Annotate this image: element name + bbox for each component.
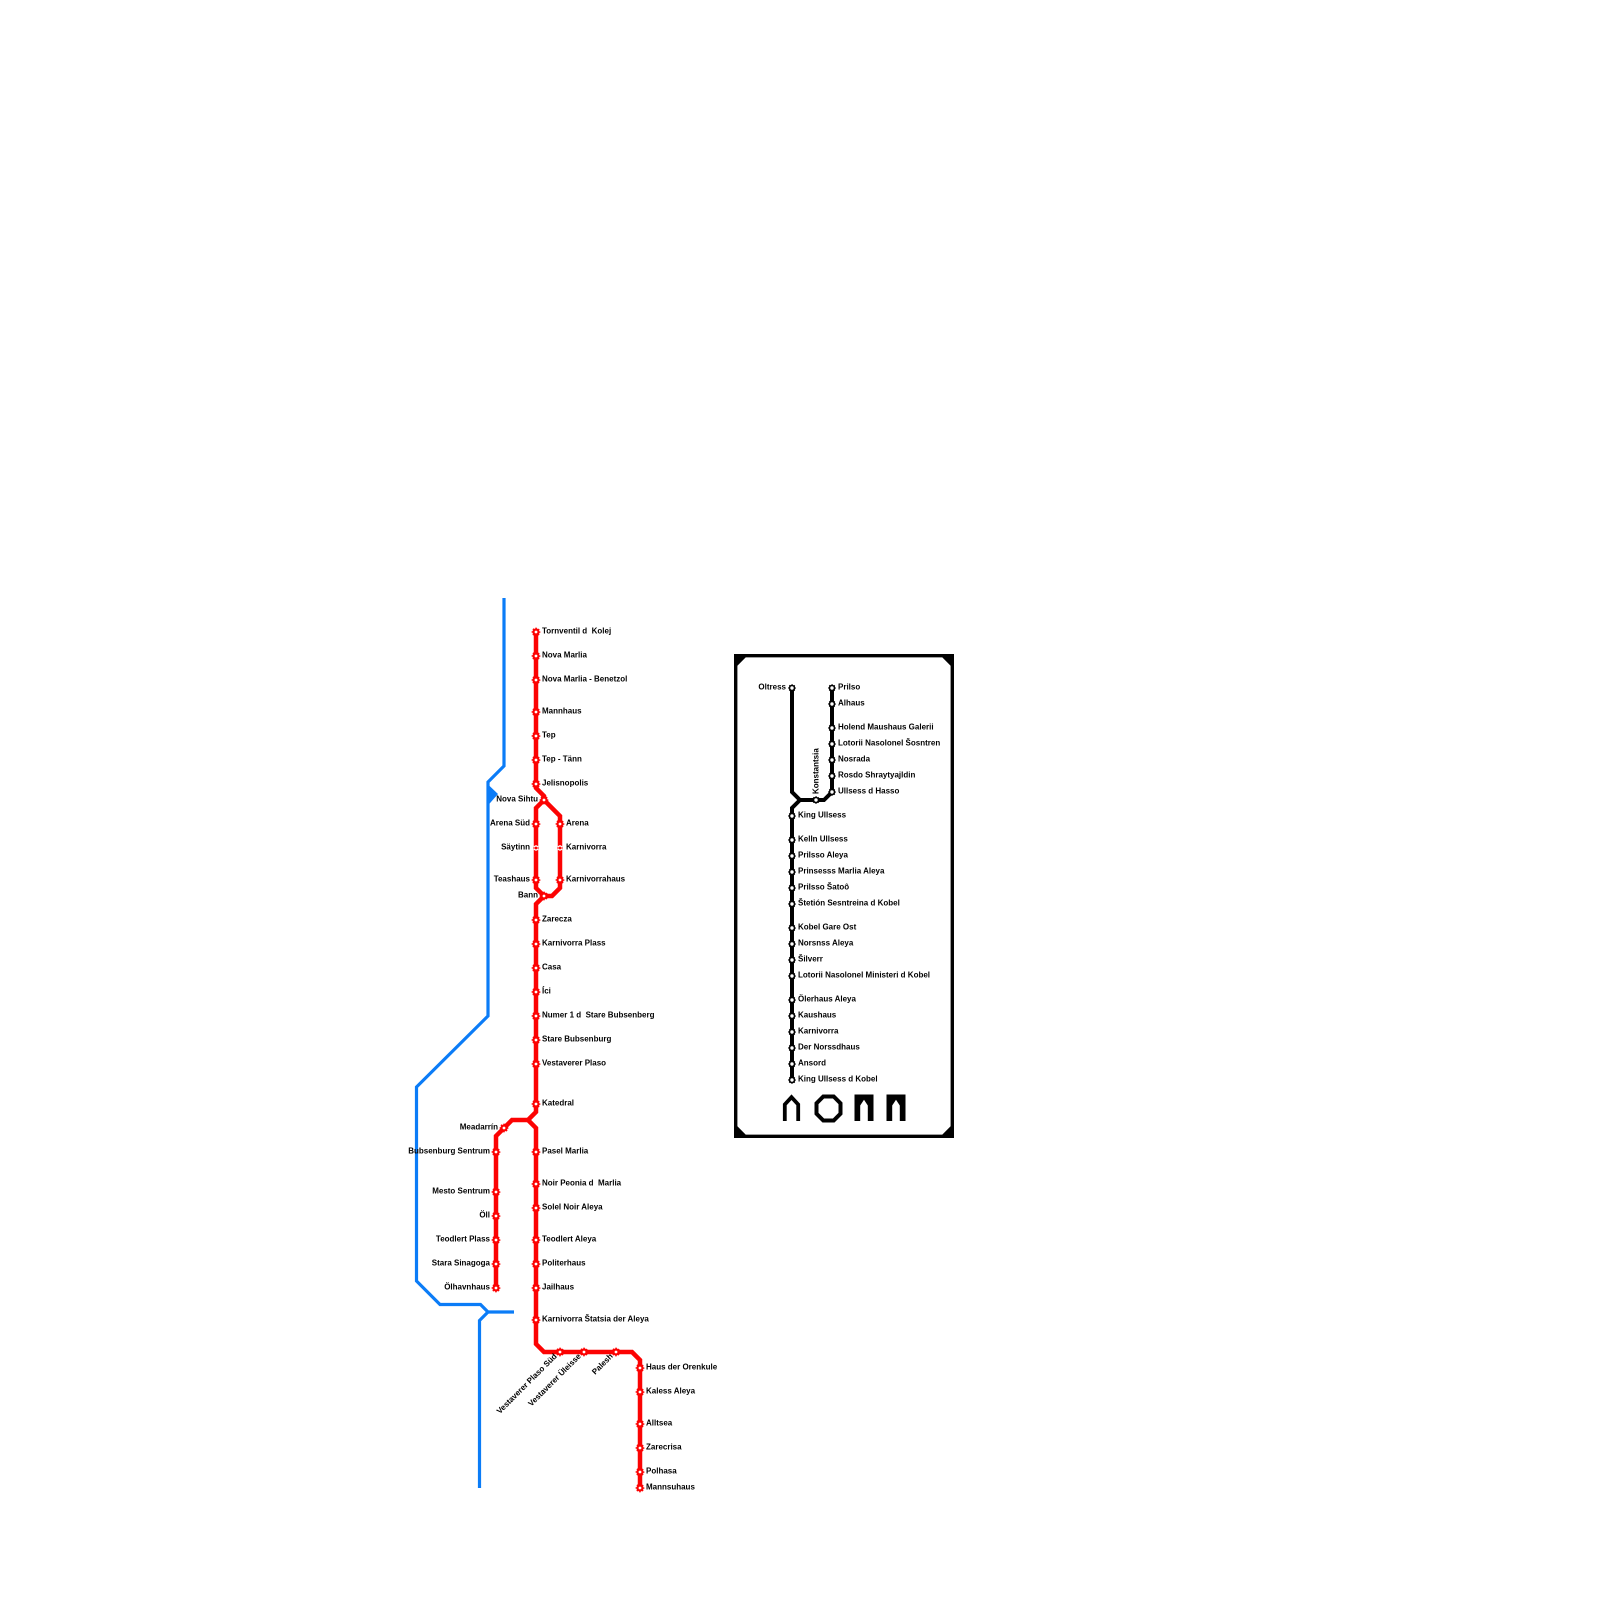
inset station Šilverr (789, 957, 796, 964)
inset station King Ullsess (789, 813, 796, 820)
minor station Karnivorra (557, 845, 563, 850)
svg-text:Tep - Tänn: Tep - Tänn (542, 755, 582, 764)
station Katedral (532, 1100, 540, 1108)
station Stare Bubsenburg (532, 1036, 540, 1044)
station Mannhaus (532, 708, 540, 716)
station Teashaus (532, 876, 540, 884)
inset frame (734, 654, 954, 1138)
svg-text:Katedral: Katedral (542, 1099, 574, 1108)
svg-text:Der Norssdhaus: Der Norssdhaus (798, 1043, 860, 1052)
logo glyph arch (785, 1097, 798, 1121)
svg-text:Arena Süd: Arena Süd (490, 819, 530, 828)
inset station Oltress (789, 685, 796, 692)
svg-text:Štetión Sesntreina d Kobel: Štetión Sesntreina d Kobel (798, 899, 900, 908)
river main course (417, 598, 515, 1312)
svg-text:Lotorii Nasolonel Ministeri d: Lotorii Nasolonel Ministeri d Kobel (798, 971, 930, 980)
logo glyph octagon (817, 1097, 841, 1121)
inset station King Ullsess d Kobel (789, 1077, 796, 1084)
svg-text:Tep: Tep (542, 731, 556, 740)
station Meadarrín (500, 1124, 508, 1132)
inset station Der Norssdhaus (789, 1045, 796, 1052)
svg-text:Karnivorra Plass: Karnivorra Plass (542, 939, 606, 948)
svg-text:Prilsso Šatoô: Prilsso Šatoô (798, 883, 849, 892)
svg-text:Jailhaus: Jailhaus (542, 1283, 575, 1292)
svg-text:Ölerhaus Aleya: Ölerhaus Aleya (798, 995, 857, 1004)
svg-text:Kelln Ullsess: Kelln Ullsess (798, 835, 848, 844)
station Tep (532, 732, 540, 740)
station Jailhaus (532, 1284, 540, 1292)
inset station Nosrada (829, 757, 836, 764)
inset station Kobel Gare Ost (789, 925, 796, 932)
inset station Alhaus (829, 701, 836, 708)
svg-text:Solel Noir Aleya: Solel Noir Aleya (542, 1203, 603, 1212)
inset station Kaushaus (789, 1013, 796, 1020)
svg-text:Nosrada: Nosrada (838, 755, 871, 764)
station Vestaverer Üleisse (580, 1348, 588, 1356)
svg-text:Prilsso Aleya: Prilsso Aleya (798, 851, 849, 860)
svg-text:Íci: Íci (542, 987, 551, 996)
svg-text:Mannsuhaus: Mannsuhaus (646, 1483, 695, 1492)
svg-text:Rosdo Shraytyajldin: Rosdo Shraytyajldin (838, 771, 915, 780)
station Nova Marlia (532, 652, 540, 660)
station Nova Sihtu (540, 796, 548, 804)
inset station Rosdo Shraytyajldin (829, 773, 836, 780)
station Politerhaus (532, 1260, 540, 1268)
logo glyph gate 2 (887, 1095, 906, 1122)
inset station Prilsso Šatoô (789, 885, 796, 892)
station Karnivorra Štatsia der Aleya (532, 1316, 540, 1324)
svg-text:Noir Peonia d Marlia: Noir Peonia d Marlia (542, 1179, 622, 1188)
svg-text:Lotorii Nasolonel Šosntren: Lotorii Nasolonel Šosntren (838, 739, 940, 748)
svg-text:Meadarrín: Meadarrín (460, 1123, 498, 1132)
svg-text:Polhasa: Polhasa (646, 1467, 677, 1476)
station Teodlert Plass (492, 1236, 500, 1244)
inset station Norsnss Aleya (789, 941, 796, 948)
station Vestaverer Plaso (532, 1060, 540, 1068)
svg-text:Säytinn: Säytinn (501, 843, 530, 852)
station Mannsuhaus (636, 1484, 644, 1492)
station Vestaverer Plaso Süd (556, 1348, 564, 1356)
minor station Säytinn (533, 845, 539, 850)
inset station Ullsess d Hasso (829, 789, 836, 796)
inset station Lotorii Nasolonel Ministeri d Kobel (789, 973, 796, 980)
red east branch south (528, 1120, 640, 1488)
svg-text:Karnivorra Štatsia der Aleya: Karnivorra Štatsia der Aleya (542, 1315, 649, 1324)
svg-text:Prilso: Prilso (838, 683, 860, 692)
station Jelisnopolis (532, 780, 540, 788)
svg-text:Kaushaus: Kaushaus (798, 1011, 837, 1020)
svg-text:Norsnss Aleya: Norsnss Aleya (798, 939, 854, 948)
svg-text:Nova Sihtu: Nova Sihtu (496, 795, 538, 804)
svg-text:King Ullsess: King Ullsess (798, 811, 847, 820)
svg-text:Šilverr: Šilverr (798, 955, 823, 964)
svg-text:Haus der Orenkule: Haus der Orenkule (646, 1363, 718, 1372)
svg-text:Karnivorra: Karnivorra (798, 1027, 839, 1036)
svg-text:Nova Marlia - Benetzol: Nova Marlia - Benetzol (542, 675, 627, 684)
svg-text:Bann: Bann (518, 891, 538, 900)
station Haus der Orenkule (636, 1364, 644, 1372)
svg-text:Ölhavnhaus: Ölhavnhaus (444, 1283, 490, 1292)
station Mesto Sentrum (492, 1188, 500, 1196)
svg-text:Zarecrisa: Zarecrisa (646, 1443, 682, 1452)
inset junction Konstantsia (813, 797, 820, 804)
station Pasel Marlia (532, 1148, 540, 1156)
svg-text:Alhaus: Alhaus (838, 699, 865, 708)
svg-text:Ullsess d Hasso: Ullsess d Hasso (838, 787, 899, 796)
inset station Prilso (829, 685, 836, 692)
svg-text:Jelisnopolis: Jelisnopolis (542, 779, 589, 788)
svg-text:Nova Marlia: Nova Marlia (542, 651, 587, 660)
station Nova Marlia - Benetzol (532, 676, 540, 684)
svg-text:Casa: Casa (542, 963, 562, 972)
svg-text:Teodlert Plass: Teodlert Plass (436, 1235, 491, 1244)
svg-text:Karnivorra: Karnivorra (566, 843, 607, 852)
station Tep - Tänn (532, 756, 540, 764)
station Tornventil d Kolej (532, 628, 540, 636)
station Kaless Aleya (636, 1388, 644, 1396)
inset station Karnivorra (789, 1029, 796, 1036)
logo glyph gate 1 (855, 1095, 874, 1122)
inset station Prilsso Aleya (789, 853, 796, 860)
station Arena Süd (532, 820, 540, 828)
svg-text:Vestaverer Plaso: Vestaverer Plaso (542, 1059, 606, 1068)
svg-text:Alltsea: Alltsea (646, 1419, 673, 1428)
station Bubsenburg Sentrum (492, 1148, 500, 1156)
station Noir Peonia d Marlia (532, 1180, 540, 1188)
svg-text:Bubsenburg Sentrum: Bubsenburg Sentrum (408, 1147, 490, 1156)
inset station Ansord (789, 1061, 796, 1068)
inset station Holend Maushaus Galerii (829, 725, 836, 732)
svg-text:King Ullsess d Kobel: King Ullsess d Kobel (798, 1075, 878, 1084)
svg-text:Öll: Öll (479, 1211, 490, 1220)
svg-text:Konstantsia: Konstantsia (812, 748, 821, 794)
river widening (487, 784, 498, 807)
station Íci (532, 988, 540, 996)
station Stara Sinagoga (492, 1260, 500, 1268)
station Arena (556, 820, 564, 828)
river south branch (480, 1312, 489, 1488)
svg-text:Teodlert Aleya: Teodlert Aleya (542, 1235, 597, 1244)
station Palesh (612, 1348, 620, 1356)
station Numer 1 d Stare Bubsenberg (532, 1012, 540, 1020)
svg-text:Pasel Marlia: Pasel Marlia (542, 1147, 589, 1156)
svg-text:Mannhaus: Mannhaus (542, 707, 582, 716)
station Karnivorra Plass (532, 940, 540, 948)
inset station Štetión Sesntreina d Kobel (789, 901, 796, 908)
svg-text:Ansord: Ansord (798, 1059, 826, 1068)
svg-text:Mesto Sentrum: Mesto Sentrum (432, 1187, 490, 1196)
svg-text:Politerhaus: Politerhaus (542, 1259, 586, 1268)
svg-text:Kobel Gare Ost: Kobel Gare Ost (798, 923, 857, 932)
svg-text:Oltress: Oltress (758, 683, 786, 692)
inset station Kelln Ullsess (789, 837, 796, 844)
red loop east leg (544, 800, 560, 896)
svg-text:Holend Maushaus Galerii: Holend Maushaus Galerii (838, 723, 934, 732)
station Polhasa (636, 1468, 644, 1476)
station Solel Noir Aleya (532, 1204, 540, 1212)
svg-text:Numer 1 d Stare Bubsenberg: Numer 1 d Stare Bubsenberg (542, 1011, 655, 1020)
svg-text:Stara Sinagoga: Stara Sinagoga (432, 1259, 491, 1268)
station Zarecrisa (636, 1444, 644, 1452)
svg-text:Zarecza: Zarecza (542, 915, 572, 924)
inset merged line (792, 800, 800, 1080)
inset station Ölerhaus Aleya (789, 997, 796, 1004)
station Casa (532, 964, 540, 972)
red trunk mid (496, 896, 544, 1288)
red loop west leg (536, 800, 544, 896)
svg-text:Arena: Arena (566, 819, 589, 828)
svg-text:Stare Bubsenburg: Stare Bubsenburg (542, 1035, 611, 1044)
inset station Lotorii Nasolonel Šosntren (829, 741, 836, 748)
inset station Prinsesss Marlia Aleya (789, 869, 796, 876)
station Bann (540, 892, 548, 900)
station Öll (492, 1212, 500, 1220)
svg-text:Prinsesss Marlia Aleya: Prinsesss Marlia Aleya (798, 867, 885, 876)
station Zarecza (532, 916, 540, 924)
inset line: west + north fork (792, 688, 832, 800)
station Karnivorrahaus (556, 876, 564, 884)
svg-text:Kaless Aleya: Kaless Aleya (646, 1387, 696, 1396)
station Ölhavnhaus (492, 1284, 500, 1292)
station Teodlert Aleya (532, 1236, 540, 1244)
station Alltsea (636, 1420, 644, 1428)
svg-text:Karnivorrahaus: Karnivorrahaus (566, 875, 626, 884)
red line trunk north (536, 632, 544, 800)
svg-text:Tornventil d Kolej: Tornventil d Kolej (542, 627, 611, 636)
svg-text:Teashaus: Teashaus (494, 875, 531, 884)
